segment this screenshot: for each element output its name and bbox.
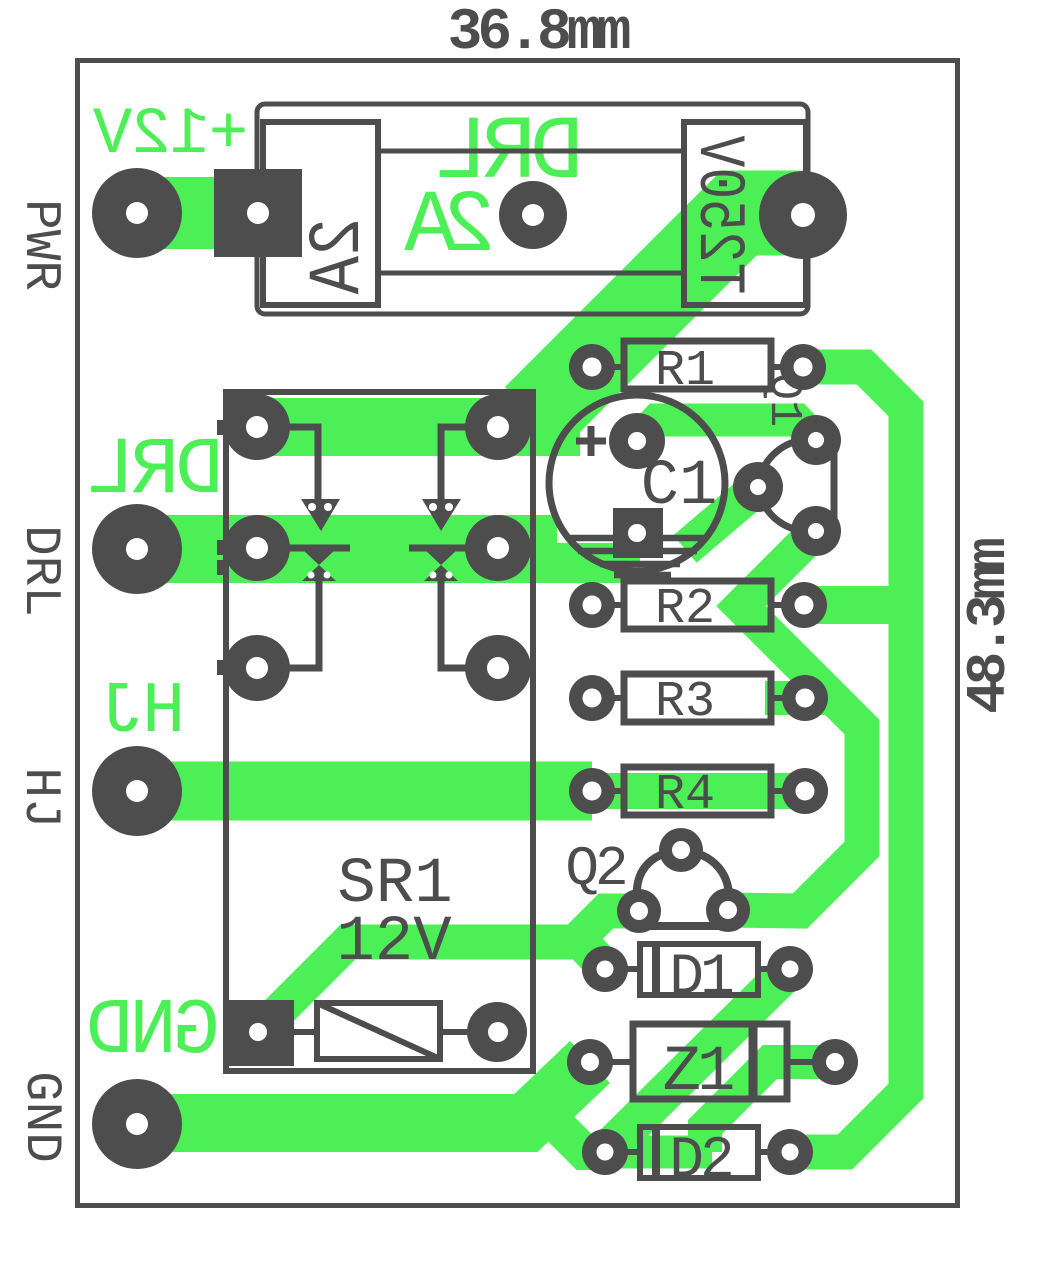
svg-text:GND: GND — [89, 986, 220, 1076]
svg-text:36.8mm: 36.8mm — [448, 1, 630, 66]
svg-text:HJ: HJ — [103, 671, 185, 753]
svg-text:Z1: Z1 — [663, 1037, 733, 1109]
svg-text:PWR: PWR — [11, 199, 68, 291]
svg-text:HJ: HJ — [11, 767, 68, 828]
svg-text:DRL: DRL — [90, 426, 224, 517]
svg-text:2A: 2A — [297, 218, 380, 295]
svg-text:12V: 12V — [336, 907, 452, 979]
svg-text:Q2: Q2 — [565, 837, 625, 901]
svg-text:R4: R4 — [655, 767, 715, 824]
svg-text:+12V: +12V — [92, 97, 248, 172]
svg-text:R2: R2 — [655, 581, 715, 638]
svg-text:T250V: T250V — [680, 135, 755, 294]
svg-text:R3: R3 — [655, 674, 715, 731]
svg-text:DRL: DRL — [11, 525, 68, 617]
svg-text:48.3mm: 48.3mm — [957, 539, 1021, 714]
svg-text:R1: R1 — [655, 343, 715, 400]
svg-text:D2: D2 — [669, 1129, 731, 1194]
svg-text:C1: C1 — [641, 451, 718, 523]
svg-text:GND: GND — [12, 1071, 69, 1163]
svg-text:Q1: Q1 — [758, 373, 809, 427]
svg-text:D1: D1 — [669, 946, 732, 1011]
